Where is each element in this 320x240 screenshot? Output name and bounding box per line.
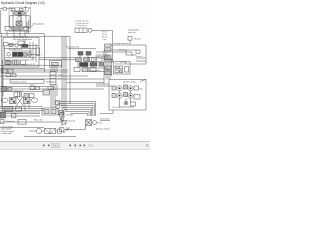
solenoid block right: [18, 52, 23, 56]
oil cooler small box: [43, 90, 50, 95]
vertical riser x44: [44, 34, 46, 73]
travel junction verticals: [24, 105, 26, 111]
swing motor oval: [14, 11, 26, 15]
svg-text:Hydraulic oil tank: Hydraulic oil tank: [96, 128, 110, 131]
radiating wires: [8, 44, 16, 46]
connect line: [29, 130, 36, 132]
nav prev icon: [48, 144, 50, 147]
pump unit box: [109, 80, 146, 111]
below-box line: [0, 68, 44, 70]
line above cluster: [68, 48, 96, 50]
right small cluster: [136, 50, 140, 53]
small valve right top: [128, 37, 132, 41]
long thin box travel: [88, 68, 108, 72]
upper dark blob: [22, 44, 28, 47]
svg-text:Hydraulic Circuit Diagram (1/2: Hydraulic Circuit Diagram (1/2): [1, 1, 45, 5]
swing make-up valve left: [12, 8, 16, 11]
svg-text:75%: 75%: [88, 144, 94, 148]
long bus lines left to center: [0, 64, 62, 66]
left edge wire: [0, 10, 2, 34]
pilot cluster row3: [74, 68, 80, 72]
bottom inner line: [3, 64, 39, 66]
bus lines lower: [0, 86, 48, 88]
small box right of relief: [28, 53, 31, 56]
feed horizontal y82.8 continues: [96, 83, 104, 85]
legend ticks: [24, 7, 27, 9]
wire to riser: [92, 29, 113, 31]
travel motor left valve: [10, 97, 17, 104]
svg-text:Pilot piping : pilot line: Pilot piping : pilot line: [11, 81, 27, 84]
riser x112: [112, 30, 114, 61]
filter box pair: [45, 128, 56, 133]
spool hatch: [6, 60, 8, 65]
toolbar separator: [0, 141, 150, 142]
wire out bottom of pump: [100, 110, 113, 114]
crossing lines lower left: [0, 106, 42, 108]
center joint box: [50, 61, 62, 68]
swing motor core: [18, 12, 21, 14]
upper left boxes: [4, 43, 9, 46]
mid wires: [4, 48, 36, 50]
solenoid inner squares: [115, 66, 118, 69]
svg-text:Oil tank: Oil tank: [66, 129, 72, 132]
right edge rungs: [136, 57, 146, 59]
center joint risers: [50, 67, 52, 72]
wires cluster verticals: [12, 11, 14, 27]
travel crossover X: [16, 96, 24, 106]
inner wires2: [5, 57, 36, 59]
svg-text:Pump: Pump: [98, 123, 103, 125]
svg-text:Check v.: Check v.: [136, 56, 143, 58]
spool box a: [5, 60, 11, 65]
wires to right mid box: [104, 59, 114, 61]
left lower cluster: [4, 107, 13, 112]
nested bus bends center-bottom: [58, 102, 96, 117]
pilot valve cluster box row1: [78, 52, 83, 56]
swivel circle: [56, 105, 60, 109]
svg-text:Main line: Main line: [46, 82, 53, 84]
long line at 127: [0, 127, 44, 129]
swing motor group enclosure: [10, 16, 31, 27]
pump reg box r1a: [112, 86, 116, 90]
pump reg box r1c: [134, 86, 139, 90]
nav next icon: [70, 144, 72, 147]
viewer toolbar: [0, 141, 150, 150]
svg-text:Swing motor: Swing motor: [33, 23, 44, 26]
check valve cluster center: [59, 111, 64, 115]
pump circle r2b: [128, 93, 133, 98]
feed lines into pump box: [104, 83, 109, 85]
bus line below swing: [0, 33, 44, 35]
swing motor group outer enclosure: [9, 7, 31, 31]
pilot line small box: [36, 48, 40, 56]
wire right bend top: [120, 62, 146, 64]
nav first-page icon: [43, 144, 45, 147]
relief pair: [24, 53, 27, 56]
pump circle r1b: [128, 86, 133, 91]
swing make-up valve right: [20, 8, 24, 11]
travel feeds: [17, 92, 19, 98]
swing relief valve block: [16, 21, 22, 26]
pump reg box r2a: [112, 94, 116, 98]
small box bottom: [60, 128, 64, 132]
oil cooler circle: [36, 128, 41, 133]
small circle right: [93, 121, 97, 125]
hatch marks in valve row: [13, 27, 15, 31]
second left bus: [1, 60, 3, 118]
box below stack: [48, 87, 54, 90]
zoom out icon: [80, 144, 82, 147]
top rail: [10, 10, 29, 12]
bus line 2 below swing: [0, 35, 70, 37]
left edge vertical wires: [0, 34, 2, 109]
pump inner lines: [119, 91, 121, 93]
left mid extra boxes: [6, 74, 10, 77]
right cluster boxes: [88, 58, 94, 62]
svg-text:To control valve P1 P2: To control valve P1 P2: [18, 63, 35, 66]
small pump symbol top-center: [75, 28, 87, 33]
pilot valve cluster row2: [76, 58, 82, 62]
feed horizontal y58: [96, 57, 110, 59]
right feed risers: [103, 50, 105, 84]
travel valve left dots: [11, 98, 13, 100]
page number box: [51, 143, 60, 147]
toolbar right glyph: [146, 144, 149, 147]
pilot relief box bottom: [131, 102, 136, 106]
dark box left edge: [0, 113, 6, 119]
spool box c: [21, 60, 26, 65]
lines into right cluster: [104, 49, 136, 51]
upper circle: [15, 44, 18, 47]
right mid box: [114, 62, 131, 75]
svg-text:Pilot line: Pilot line: [134, 38, 141, 41]
dark blobs right: [90, 63, 97, 67]
long thin annotation band: [10, 80, 44, 84]
swing brake diamond: [17, 16, 22, 21]
travel valve right dots: [25, 98, 27, 100]
travel motor left oval: [2, 98, 8, 102]
svg-text:Bypass: Bypass: [30, 85, 35, 87]
left small cluster2: [2, 87, 7, 91]
gear pump small circle: [124, 101, 128, 105]
swing valve bottom row: [5, 27, 11, 31]
svg-text:Reg.: Reg.: [140, 89, 144, 91]
pump reg box r2b: [124, 93, 128, 97]
rotary joint stack: [50, 72, 56, 85]
toolbar background: [0, 142, 150, 150]
pump reg box r1b: [124, 85, 128, 89]
svg-text:Travel speed v.: Travel speed v.: [89, 70, 102, 72]
svg-text:Suction line: Suction line: [66, 120, 75, 123]
svg-text:Pilot filter: Pilot filter: [66, 114, 74, 117]
drain diagonal: [63, 128, 69, 134]
svg-text:T line: T line: [102, 39, 106, 41]
control valve outer box: [3, 38, 39, 68]
upper sub cluster box: [18, 41, 24, 44]
svg-text:To swing motor port: To swing motor port: [113, 42, 129, 45]
svg-text:valve unit: valve unit: [128, 31, 136, 34]
svg-text:Travel pilot valve: Travel pilot valve: [66, 46, 79, 49]
valve with X bottom center: [86, 120, 92, 126]
main vertical bus group: [61, 36, 63, 126]
travel motor right oval: [31, 98, 37, 102]
wire motor to brake: [19, 15, 21, 16]
svg-text:4. Swing motor: 4. Swing motor: [1, 132, 13, 135]
pilot filter symbol: [60, 113, 64, 117]
drop wires to bus: [6, 31, 8, 37]
nav last icon: [75, 144, 77, 147]
pilot cluster dark core: [80, 63, 89, 67]
svg-text:Suction filter: Suction filter: [100, 118, 110, 121]
cluster connection verticals: [79, 56, 81, 58]
svg-text:Pilot valve Shuttle valve: Pilot valve Shuttle valve: [13, 38, 32, 41]
bend wire right: [118, 50, 136, 55]
leader line swing label: [29, 25, 33, 29]
svg-text:Solenoid valve: Solenoid valve: [115, 64, 126, 66]
diagonal drain: [60, 118, 66, 124]
solenoid block left: [13, 52, 18, 56]
travel motor right valve: [24, 97, 31, 104]
pump circle r1a: [117, 86, 122, 91]
oil cooler box: [42, 108, 58, 115]
svg-text:P: P: [41, 55, 42, 57]
center joint inner box: [52, 62, 59, 66]
gauge circle: [88, 28, 92, 32]
svg-text:Hydraulic pump: Hydraulic pump: [123, 82, 135, 84]
spool box b: [13, 60, 20, 65]
toolbar bottom edge: [0, 148, 150, 151]
pilot circle: [7, 53, 11, 57]
pump circle r2a: [117, 93, 122, 98]
zoom in icon: [84, 144, 86, 147]
small valve box: [58, 129, 62, 133]
small circle under: [60, 118, 63, 121]
legend box top-left: [3, 8, 6, 11]
svg-text:Main relief: Main relief: [26, 59, 34, 62]
rotary joint drop wires: [50, 85, 52, 109]
left mid cluster boxes: [2, 69, 7, 73]
mid small cluster right: [30, 87, 34, 90]
left column mini boxes: [105, 44, 112, 47]
swivel check valve: [56, 101, 60, 105]
horizontal bus lines center: [39, 57, 76, 59]
svg-text:1/13: 1/13: [52, 144, 58, 148]
pump reg box r2c: [134, 95, 140, 100]
svg-text:Return line: Return line: [34, 119, 43, 122]
